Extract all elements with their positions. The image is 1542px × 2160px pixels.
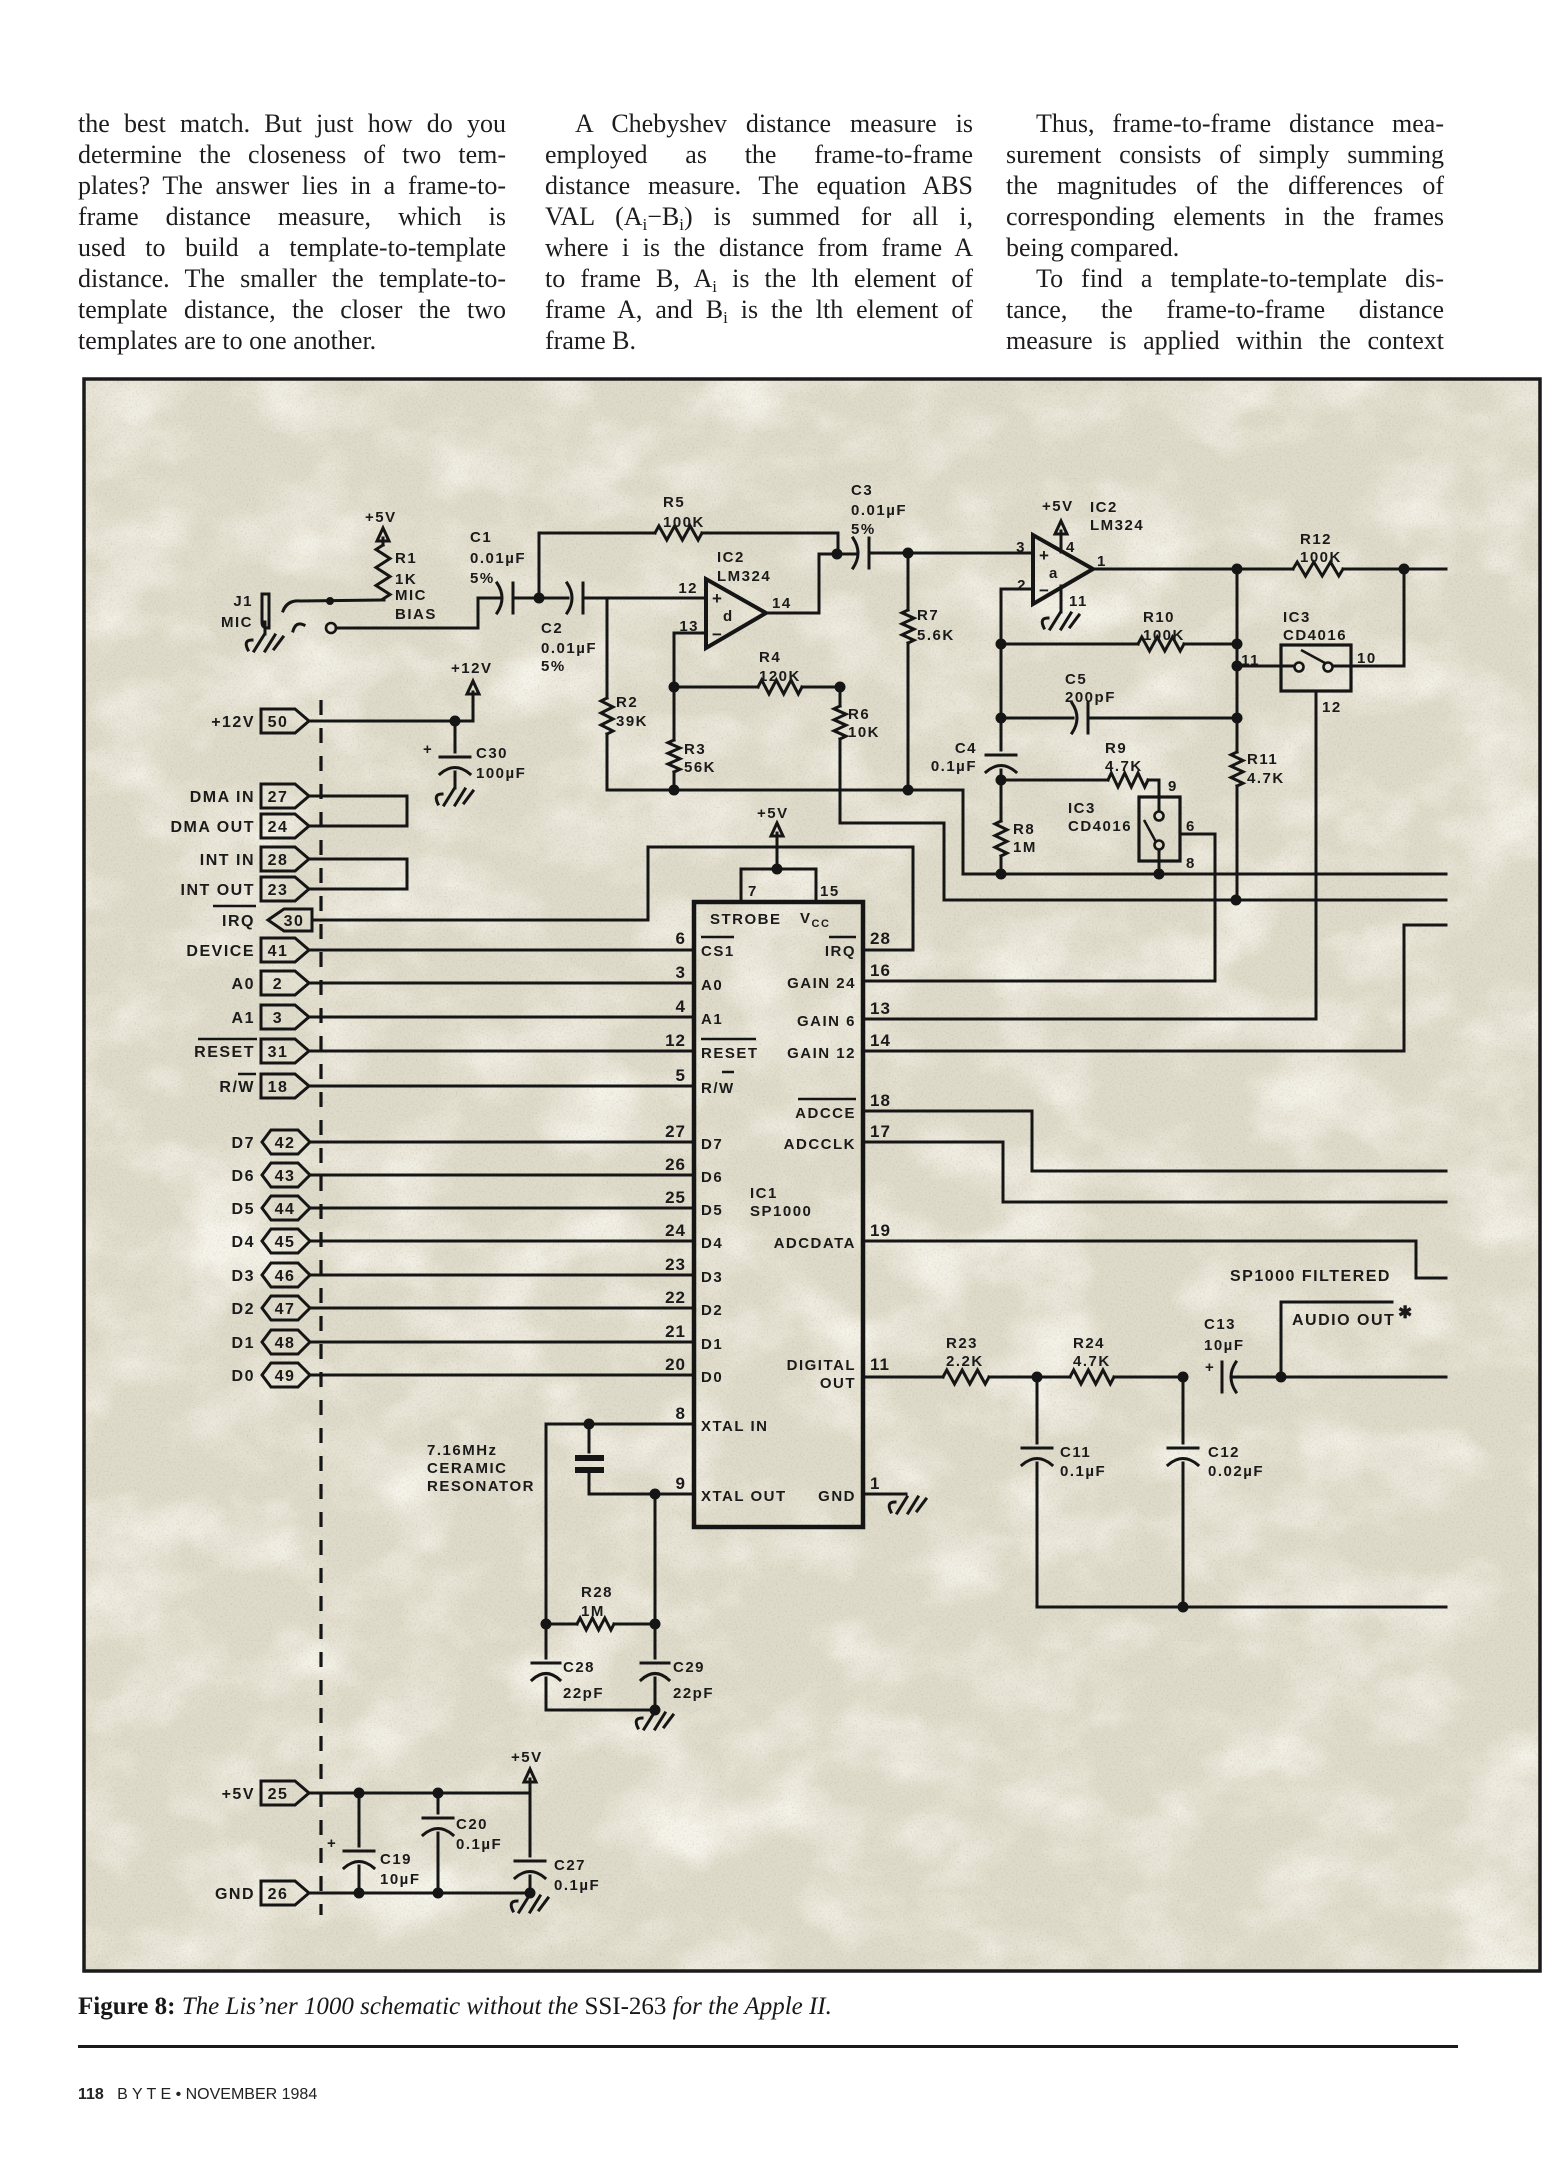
svg-text:XTAL OUT: XTAL OUT <box>701 1488 787 1505</box>
svg-text:12: 12 <box>678 580 698 597</box>
svg-text:IRQ: IRQ <box>222 913 255 930</box>
label AUDIO OUT box <box>1281 1302 1413 1377</box>
wire D3 to chip <box>310 1274 694 1277</box>
svg-text:25: 25 <box>665 1188 686 1207</box>
capacitor C29 22pF <box>641 1624 714 1710</box>
svg-text:R24: R24 <box>1073 1335 1105 1352</box>
svg-text:16: 16 <box>870 961 891 980</box>
svg-text:CS1: CS1 <box>701 943 735 960</box>
svg-text:9: 9 <box>676 1474 686 1493</box>
svg-text:STROBE: STROBE <box>710 911 782 928</box>
wire +12V <box>309 692 473 721</box>
node output bus at R10 <box>1232 639 1243 650</box>
article text column 3 <box>1006 108 1444 356</box>
wire pin 11 to output bus <box>1237 665 1294 668</box>
svg-text:D6: D6 <box>232 1168 255 1185</box>
resistor R9 4.7K <box>1001 740 1159 811</box>
op-amp U1 IC2 LM324 section d <box>678 549 791 648</box>
resistor R11 4.7K <box>1231 751 1285 900</box>
node C5 left junction <box>996 713 1007 724</box>
svg-text:CD4016: CD4016 <box>1068 818 1132 835</box>
svg-text:R1: R1 <box>395 550 417 567</box>
svg-text:15: 15 <box>820 883 840 900</box>
svg-text:8: 8 <box>676 1404 686 1423</box>
svg-text:18: 18 <box>870 1091 891 1110</box>
svg-text:14: 14 <box>870 1031 891 1050</box>
capacitor C2 0.01uF 5% <box>541 583 597 675</box>
capacitor C13 10uF <box>1204 1316 1281 1392</box>
wire +5V rail <box>309 1779 530 1793</box>
wire op-amp U1 output <box>766 554 856 613</box>
svg-text:OUT: OUT <box>820 1375 856 1392</box>
svg-text:100K: 100K <box>663 514 705 531</box>
svg-text:11: 11 <box>870 1355 890 1374</box>
wire C3 to op-amp pin 3 <box>869 552 1033 555</box>
ground at op-amp U2 <box>1042 586 1079 629</box>
svg-text:SP1000: SP1000 <box>750 1203 812 1220</box>
svg-text:R10: R10 <box>1143 609 1175 626</box>
svg-text:+12V: +12V <box>451 660 492 677</box>
node R7 on rail <box>903 785 914 796</box>
node R11 on lower bus <box>1231 895 1242 906</box>
svg-text:DEVICE: DEVICE <box>186 943 255 960</box>
pin 3 A0 label <box>676 963 724 994</box>
svg-text:44: 44 <box>275 1201 296 1218</box>
svg-text:9: 9 <box>1168 778 1178 795</box>
pin 25 D5 label <box>665 1188 723 1219</box>
svg-text:R23: R23 <box>946 1335 978 1352</box>
wire R5 to output node <box>702 533 838 554</box>
svg-text:4.7K: 4.7K <box>1247 770 1285 787</box>
svg-text:C27: C27 <box>554 1857 586 1874</box>
svg-text:+: + <box>423 741 433 758</box>
resistor R7 5.6K <box>902 553 955 790</box>
wire C1 to node A <box>513 597 568 600</box>
wire XTAL OUT <box>589 1493 694 1496</box>
svg-text:DIGITAL: DIGITAL <box>787 1357 856 1374</box>
svg-text:INT OUT: INT OUT <box>181 882 256 899</box>
wire ground rail <box>607 790 1446 874</box>
resistor R23 2.2K <box>943 1335 1037 1384</box>
connector A1 pin 3 <box>232 1005 309 1029</box>
svg-text:5%: 5% <box>470 570 495 587</box>
pin 11 DIGITAL OUT label <box>787 1355 890 1392</box>
connector D3 pin 46 <box>232 1263 310 1287</box>
svg-text:+: + <box>327 1835 337 1852</box>
svg-text:IC3: IC3 <box>1283 609 1311 626</box>
node switch pin8 on rail <box>1154 869 1165 880</box>
svg-text:R5: R5 <box>663 494 685 511</box>
figure caption <box>78 1993 1498 2021</box>
svg-text:D3: D3 <box>232 1268 255 1285</box>
node AUDIO OUT junction <box>1276 1372 1287 1383</box>
svg-text:IC3: IC3 <box>1068 800 1096 817</box>
node resonator ground junction <box>650 1705 661 1716</box>
pin 6 CS1 label <box>676 929 735 960</box>
wire pin 10 to R12 junction <box>1333 569 1404 666</box>
ground at C27 <box>511 1896 548 1912</box>
svg-text:✱: ✱ <box>1398 1303 1413 1322</box>
svg-text:R9: R9 <box>1105 740 1127 757</box>
wire D7 to chip <box>310 1141 694 1144</box>
svg-text:28: 28 <box>870 929 891 948</box>
svg-text:R2: R2 <box>616 694 638 711</box>
capacitor C11 0.1uF <box>1022 1377 1106 1607</box>
svg-text:D7: D7 <box>701 1136 723 1153</box>
pin 8 XTAL IN label <box>676 1404 769 1435</box>
wire op-amp U2 inverting input <box>1001 589 1033 644</box>
svg-text:5%: 5% <box>851 521 876 538</box>
svg-text:D1: D1 <box>232 1335 255 1352</box>
svg-text:24: 24 <box>268 819 289 836</box>
svg-text:DMA OUT: DMA OUT <box>170 819 255 836</box>
svg-text:4: 4 <box>676 997 686 1016</box>
svg-text:+5V: +5V <box>365 509 397 526</box>
resistor R28 1M <box>546 1584 655 1630</box>
svg-text:C20: C20 <box>456 1816 488 1833</box>
svg-text:C19: C19 <box>380 1851 412 1868</box>
svg-text:D0: D0 <box>232 1368 255 1385</box>
svg-text:26: 26 <box>665 1155 686 1174</box>
svg-text:D4: D4 <box>232 1234 255 1251</box>
svg-text:D2: D2 <box>701 1302 723 1319</box>
svg-text:IC1: IC1 <box>750 1185 778 1202</box>
svg-text:5%: 5% <box>541 658 566 675</box>
connector D1 pin 48 <box>232 1330 310 1354</box>
svg-text:1: 1 <box>1097 553 1107 570</box>
svg-text:AUDIO OUT: AUDIO OUT <box>1292 1312 1395 1329</box>
wire IRQ to chip pin 28 <box>312 847 913 950</box>
svg-text:10µF: 10µF <box>1204 1337 1245 1354</box>
svg-text:56K: 56K <box>684 759 716 776</box>
svg-text:3: 3 <box>676 963 686 982</box>
connector D5 pin 44 <box>232 1196 310 1220</box>
svg-text:RESONATOR: RESONATOR <box>427 1478 535 1495</box>
svg-text:1M: 1M <box>581 1603 605 1620</box>
svg-text:C29: C29 <box>673 1659 705 1676</box>
svg-text:DMA IN: DMA IN <box>190 789 255 806</box>
ground at C30 <box>436 789 473 805</box>
svg-text:C2: C2 <box>541 620 563 637</box>
svg-text:45: 45 <box>275 1234 296 1251</box>
svg-text:LM324: LM324 <box>1090 517 1144 534</box>
svg-text:R3: R3 <box>684 741 706 758</box>
wire resonator bottom <box>546 1709 655 1712</box>
resistor R4 120K <box>674 649 840 694</box>
capacitor C19 10uF <box>327 1793 421 1893</box>
resistor R12 100K <box>1237 531 1404 576</box>
wire J1 tip to R1 <box>283 597 384 611</box>
power +12V arrow <box>451 660 492 694</box>
resistor R24 4.7K <box>1037 1335 1183 1384</box>
svg-text:8: 8 <box>1186 855 1196 872</box>
capacitor C27 0.1uF <box>515 1793 600 1894</box>
pin 5 R/W label <box>676 1066 735 1097</box>
resistor R1 1K MIC BIAS <box>376 545 437 623</box>
label SP1000 FILTERED <box>1230 1268 1391 1285</box>
svg-text:GND: GND <box>215 1886 255 1903</box>
svg-text:100K: 100K <box>1300 549 1342 566</box>
svg-text:2: 2 <box>273 976 283 993</box>
svg-text:C11: C11 <box>1060 1444 1091 1461</box>
pin 1 GND label <box>818 1474 880 1505</box>
wire op-amp U2 output <box>1093 568 1237 571</box>
svg-text:22: 22 <box>665 1288 686 1307</box>
svg-text:D3: D3 <box>701 1269 723 1286</box>
power +5V at IC1 pins 7 and 15 <box>741 805 840 902</box>
pin 17 ADCCLK label <box>784 1122 891 1153</box>
connector DMA IN pin 27 <box>190 784 309 808</box>
svg-text:12: 12 <box>1322 699 1342 716</box>
svg-text:a: a <box>1049 565 1059 582</box>
node output bus at pin 11 <box>1232 661 1243 672</box>
node audio ground junction <box>1178 1602 1189 1613</box>
pin 13 GAIN 6 label <box>797 999 891 1030</box>
svg-text:0.01µF: 0.01µF <box>541 640 597 657</box>
svg-text:2.2K: 2.2K <box>946 1353 984 1370</box>
svg-text:RESET: RESET <box>701 1045 759 1062</box>
svg-text:D4: D4 <box>701 1235 723 1252</box>
svg-text:43: 43 <box>275 1168 296 1185</box>
op-amp U2 IC2 LM324 section a <box>1016 499 1144 610</box>
article text column 2 <box>545 108 973 356</box>
connector +5V pin 25 <box>222 1781 309 1805</box>
svg-text:D5: D5 <box>701 1202 723 1219</box>
svg-text:3: 3 <box>1016 539 1026 556</box>
svg-text:13: 13 <box>870 999 891 1018</box>
svg-text:22pF: 22pF <box>673 1685 714 1702</box>
svg-text:J1: J1 <box>233 593 253 610</box>
node R4 left junction <box>669 682 680 693</box>
svg-text:A0: A0 <box>232 976 255 993</box>
svg-text:D5: D5 <box>232 1201 255 1218</box>
wire R12 to right stub <box>1404 568 1446 571</box>
svg-text:XTAL IN: XTAL IN <box>701 1418 768 1435</box>
wire audio out stub <box>1281 1376 1446 1379</box>
capacitor C3 0.01uF 5% <box>851 482 907 568</box>
pin 18 ADCCE label <box>795 1091 891 1122</box>
wire DEVICE to chip <box>309 949 694 952</box>
svg-text:4: 4 <box>1066 539 1076 556</box>
wire lower bus <box>944 899 1446 902</box>
svg-text:27: 27 <box>268 789 289 806</box>
node R12 right junction <box>1399 564 1410 575</box>
resonator Y1 7.16MHz ceramic <box>427 1424 604 1495</box>
connector D4 pin 45 <box>232 1229 310 1253</box>
pin 24 D4 label <box>665 1221 723 1252</box>
svg-text:41: 41 <box>268 943 289 960</box>
pin 23 D3 label <box>665 1255 723 1286</box>
svg-text:31: 31 <box>268 1044 289 1061</box>
power +5V arrow at rail <box>511 1749 543 1782</box>
node R8 on rail <box>996 869 1007 880</box>
svg-text:C1: C1 <box>470 529 492 546</box>
node resonator top junction <box>584 1419 595 1430</box>
svg-text:CD4016: CD4016 <box>1283 627 1347 644</box>
svg-text:28: 28 <box>268 852 289 869</box>
wire R6 tail to lower bus <box>840 739 944 900</box>
svg-text:5.6K: 5.6K <box>917 627 955 644</box>
svg-text:25: 25 <box>268 1786 289 1803</box>
svg-text:200pF: 200pF <box>1065 689 1116 706</box>
svg-text:18: 18 <box>268 1079 289 1096</box>
node XTAL OUT junction <box>650 1489 661 1500</box>
connector D7 pin 42 <box>232 1130 310 1154</box>
connector GND pin 26 <box>215 1881 309 1905</box>
svg-text:7.16MHz: 7.16MHz <box>427 1442 498 1459</box>
svg-text:IRQ: IRQ <box>825 943 856 960</box>
svg-text:5: 5 <box>676 1066 686 1085</box>
wire GAIN 6 net <box>863 1018 1316 1021</box>
svg-text:−: − <box>712 625 723 644</box>
svg-text:0.01µF: 0.01µF <box>851 502 907 519</box>
svg-text:49: 49 <box>275 1368 296 1385</box>
pin 12 RESET label <box>665 1031 758 1062</box>
wire A0 to chip <box>309 982 694 985</box>
svg-text:R11: R11 <box>1247 751 1278 768</box>
svg-text:39K: 39K <box>616 713 648 730</box>
capacitor C28 22pF <box>532 1624 604 1710</box>
svg-text:d: d <box>723 608 734 625</box>
svg-text:10µF: 10µF <box>380 1871 421 1888</box>
svg-text:21: 21 <box>665 1322 686 1341</box>
svg-text:22pF: 22pF <box>563 1685 604 1702</box>
node C12-C13 junction <box>1178 1372 1189 1383</box>
IC U5 IC1 SP1000 body <box>694 902 863 1527</box>
svg-text:C30: C30 <box>476 745 508 762</box>
svg-text:+: + <box>1039 546 1050 565</box>
svg-text:1M: 1M <box>1013 839 1037 856</box>
pin 9 XTAL OUT label <box>676 1474 787 1505</box>
wire op-amp U1 inverting input <box>674 633 706 687</box>
node output U1 junction <box>832 549 843 560</box>
svg-text:−: − <box>1039 581 1050 600</box>
capacitor C4 0.1uF <box>931 718 1016 780</box>
svg-text:GND: GND <box>818 1488 856 1505</box>
svg-text:6: 6 <box>676 929 686 948</box>
svg-text:+5V: +5V <box>222 1786 255 1803</box>
svg-text:ADCCE: ADCCE <box>795 1105 856 1122</box>
node R23-R24 junction <box>1032 1372 1043 1383</box>
svg-text:BIAS: BIAS <box>395 606 437 623</box>
node C20 bottom junction <box>433 1888 444 1899</box>
svg-text:17: 17 <box>870 1122 891 1141</box>
svg-text:D1: D1 <box>701 1336 723 1353</box>
pin 19 ADCDATA label <box>774 1221 891 1252</box>
pin 28 IRQ label <box>825 929 891 960</box>
svg-text:+12V: +12V <box>211 714 255 731</box>
wire XTAL IN <box>546 1423 694 1426</box>
wire ADCCLK net <box>863 1142 1446 1202</box>
svg-text:SP1000 FILTERED: SP1000 FILTERED <box>1230 1268 1391 1285</box>
svg-text:A1: A1 <box>701 1011 723 1028</box>
wire GAIN 12 net <box>863 925 1446 1051</box>
svg-text:MIC: MIC <box>395 587 427 604</box>
wire A1 to chip <box>309 1016 694 1019</box>
wire pin 8 to rail <box>1158 850 1161 874</box>
wire ADCDATA net <box>863 1241 1446 1278</box>
wire audio ground rail <box>1037 1606 1446 1609</box>
horizontal rule <box>78 2045 1458 2048</box>
svg-text:GAIN 6: GAIN 6 <box>797 1013 856 1030</box>
schematic background panel <box>84 379 1540 1971</box>
dashed card-edge separator line <box>319 700 322 1915</box>
svg-text:1K: 1K <box>395 571 417 588</box>
svg-text:R7: R7 <box>917 607 939 624</box>
svg-text:R8: R8 <box>1013 821 1035 838</box>
node C19 bottom junction <box>354 1888 365 1899</box>
wire resonator left leg <box>545 1424 548 1624</box>
svg-text:26: 26 <box>268 1886 289 1903</box>
svg-text:11: 11 <box>1069 593 1088 610</box>
resistor R2 39K <box>601 598 648 790</box>
svg-text:0.01µF: 0.01µF <box>470 550 526 567</box>
node B junction <box>903 548 914 559</box>
page footer <box>78 2086 317 2104</box>
svg-text:14: 14 <box>772 595 792 612</box>
svg-text:48: 48 <box>275 1335 296 1352</box>
power +5V at R1 <box>365 509 397 545</box>
svg-text:0.1µF: 0.1µF <box>456 1836 502 1853</box>
svg-text:0.02µF: 0.02µF <box>1208 1463 1264 1480</box>
svg-text:C4: C4 <box>955 740 977 757</box>
svg-text:D7: D7 <box>232 1135 255 1152</box>
connector DMA OUT pin 24 <box>170 814 309 838</box>
node C27 bottom junction <box>525 1888 536 1899</box>
svg-text:R/W: R/W <box>219 1079 255 1096</box>
pin 20 D0 label <box>665 1355 723 1386</box>
wire ADCCE net <box>863 1111 1446 1171</box>
svg-text:INT IN: INT IN <box>200 852 255 869</box>
capacitor C30 100uF <box>423 721 526 788</box>
pin 14 GAIN 12 label <box>787 1031 891 1062</box>
node R3 on rail <box>669 785 680 796</box>
connector D0 pin 49 <box>232 1363 310 1387</box>
capacitor C5 200pF <box>1001 671 1237 733</box>
svg-text:IC2: IC2 <box>1090 499 1118 516</box>
svg-text:D2: D2 <box>232 1301 255 1318</box>
wire output bus <box>1236 569 1239 752</box>
article text column 1 <box>78 108 506 356</box>
svg-text:LM324: LM324 <box>717 568 771 585</box>
capacitor C1 0.01uF 5% <box>470 529 526 613</box>
svg-text:2: 2 <box>1017 577 1027 594</box>
node output junction at R12 <box>1232 564 1243 575</box>
wire pin 12 to GAIN 6 <box>1315 691 1318 1019</box>
svg-text:47: 47 <box>275 1301 296 1318</box>
node R4 right junction <box>835 682 846 693</box>
svg-text:10: 10 <box>1357 650 1377 667</box>
wire D2 to chip <box>310 1307 694 1310</box>
ground at IC1 pin 1 <box>863 1494 926 1513</box>
svg-text:ADCDATA: ADCDATA <box>774 1235 856 1252</box>
svg-text:+5V: +5V <box>757 805 789 822</box>
svg-text:+: + <box>1205 1359 1215 1376</box>
svg-text:A0: A0 <box>701 977 723 994</box>
svg-text:27: 27 <box>665 1122 686 1141</box>
pin 27 D7 label <box>665 1122 723 1153</box>
svg-text:R12: R12 <box>1300 531 1332 548</box>
connector R/W pin 18 <box>219 1074 309 1098</box>
resistor R6 10K <box>834 687 880 741</box>
wire GAIN 24 net <box>863 980 1215 983</box>
svg-text:120K: 120K <box>759 668 801 685</box>
svg-text:GAIN 24: GAIN 24 <box>787 975 856 992</box>
capacitor C12 0.02uF <box>1168 1377 1264 1607</box>
ground at resonator <box>636 1713 673 1729</box>
connector RESET pin 31 <box>194 1039 309 1063</box>
svg-text:4.7K: 4.7K <box>1105 758 1143 775</box>
